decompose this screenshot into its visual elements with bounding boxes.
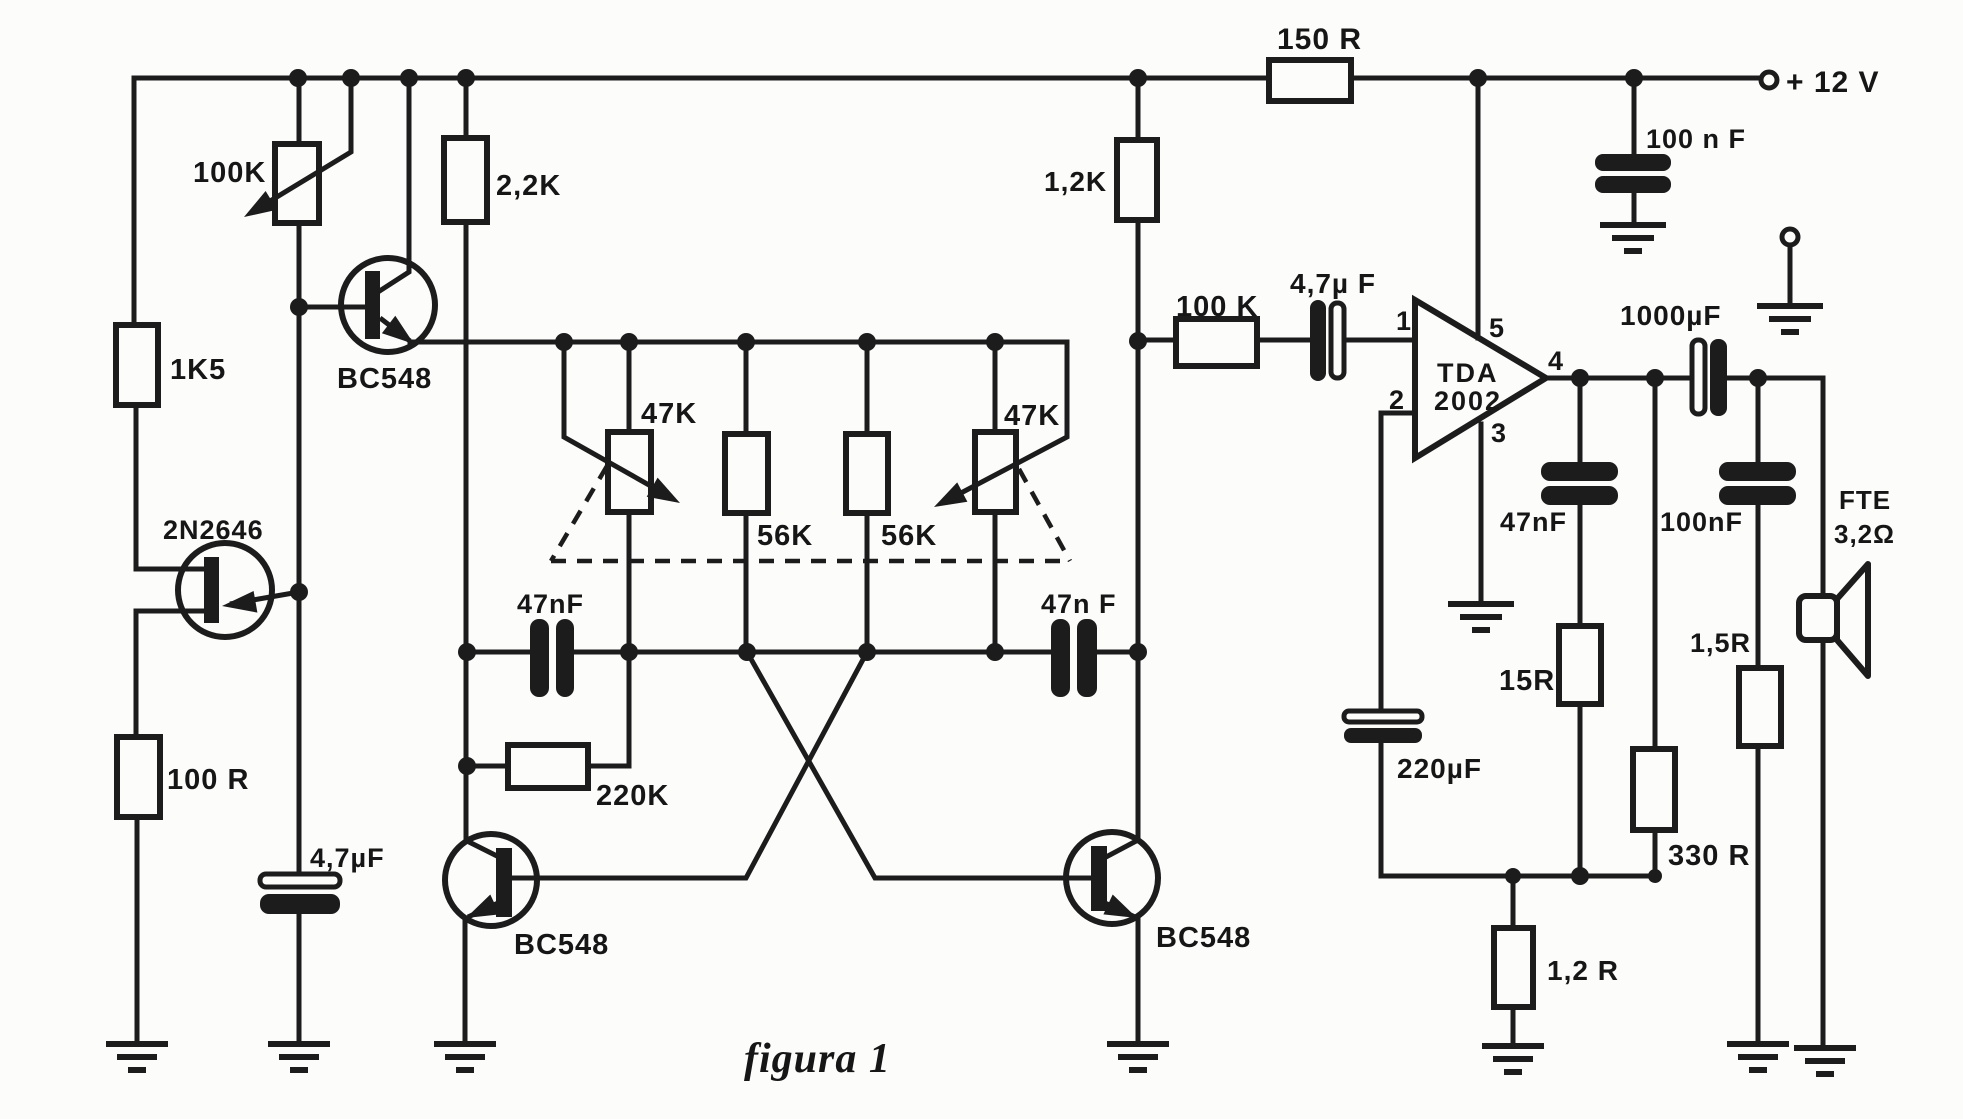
transistor Q4 2N2646 circle bbox=[178, 543, 272, 637]
wire 220K R7 left lead bbox=[467, 764, 508, 769]
terminal chassis ground bbox=[1782, 229, 1798, 245]
svg-text:2N2646: 2N2646 bbox=[163, 515, 264, 545]
svg-text:47K: 47K bbox=[1004, 400, 1060, 432]
wire 2.2K branch x=466 bbox=[464, 78, 469, 841]
transistor Q1 BC548 bar bbox=[365, 271, 380, 339]
wire 47K P2 top lead bbox=[627, 342, 632, 432]
transistor Q4 emitter wire bbox=[230, 592, 299, 604]
transistor Q1 BC548 circle bbox=[341, 258, 435, 352]
wire Q1 emitter bus y=342 bbox=[410, 340, 1067, 345]
potentiometer 47K P2 wiper arrowhead bbox=[647, 478, 680, 503]
junction dot UJT emitter node bbox=[290, 583, 308, 601]
resistor 100R bbox=[117, 737, 160, 817]
wire left rail 1K5 to UJT base B2 bbox=[136, 405, 204, 569]
capacitor 100nF C7 plate B bbox=[1595, 176, 1671, 193]
svg-text:1,5R: 1,5R bbox=[1690, 628, 1751, 658]
capacitor 4,7uF C1 solid plate bbox=[260, 894, 340, 914]
capacitor 100nF C7 plate A bbox=[1595, 154, 1671, 171]
transistor Q4 emitter arrowhead bbox=[222, 591, 257, 613]
wire Q3 collector diagonal bbox=[1106, 840, 1138, 857]
wire 56K R5 bottom lead bbox=[744, 513, 749, 652]
junction dot lower bus at 2,2K bbox=[458, 643, 476, 661]
wire pin 2 to 220uF bbox=[1381, 413, 1415, 711]
junction dot lower bus at R5 bbox=[738, 643, 756, 661]
svg-text:1000µF: 1000µF bbox=[1620, 300, 1722, 331]
transistor Q3 BC548 circle bbox=[1066, 832, 1158, 924]
svg-text:3: 3 bbox=[1491, 418, 1507, 448]
capacitor 4,7uF C1 hollow plate bbox=[260, 874, 340, 887]
wire 330R branch x=1655 bbox=[1653, 378, 1658, 876]
svg-text:100 n F: 100 n F bbox=[1646, 124, 1746, 154]
ganged linkage dashed right bbox=[1019, 469, 1070, 561]
wire +12V top rail left segment bbox=[134, 78, 1269, 325]
junction dot Q1 base node bbox=[290, 298, 308, 316]
wire node B 100K pot branch x=299 bbox=[297, 78, 302, 874]
ground Q2 emitter bbox=[434, 1044, 496, 1070]
potentiometer 100K body bbox=[275, 144, 319, 223]
svg-text:56K: 56K bbox=[757, 520, 813, 552]
junction dot lower bus at P3 bbox=[986, 643, 1004, 661]
transistor Q3 emitter arrowhead bbox=[1103, 895, 1137, 919]
resistor 56K R6 bbox=[846, 434, 888, 513]
capacitor 220uF hollow plate bbox=[1344, 711, 1422, 722]
wire 47K P3 bottom lead bbox=[993, 512, 998, 652]
svg-text:220µF: 220µF bbox=[1397, 753, 1482, 784]
capacitor 220uF solid plate bbox=[1344, 728, 1422, 743]
resistor 330R bbox=[1633, 749, 1675, 830]
resistor 100K input bbox=[1176, 319, 1257, 366]
junction dot rail at 100K bbox=[289, 69, 307, 87]
wire 100nF C7 to rail bbox=[1632, 78, 1637, 154]
wire node C lower bus left bbox=[467, 650, 530, 655]
svg-text:BC548: BC548 bbox=[337, 363, 432, 395]
junction dot feedback at 15R bbox=[1571, 867, 1589, 885]
ground chassis terminal bbox=[1757, 306, 1823, 332]
capacitor 47nF right plate A bbox=[1051, 619, 1070, 697]
svg-text:BC548: BC548 bbox=[1156, 922, 1251, 954]
transistor Q4 2N2646 bar bbox=[204, 557, 219, 623]
svg-text:47n F: 47n F bbox=[1041, 589, 1117, 619]
svg-text:15R: 15R bbox=[1499, 665, 1555, 697]
wire pin 5 to +12V bbox=[1476, 78, 1481, 338]
junction dot lower bus at Q3 collector bbox=[1129, 643, 1147, 661]
wire 15R 47nF branch lower bbox=[1578, 505, 1583, 876]
potentiometer 47K P2 body bbox=[608, 432, 651, 512]
junction dot bus at wiper P2 bbox=[555, 333, 573, 351]
wire 1000uF to speaker node bbox=[1726, 378, 1823, 1046]
resistor 2,2K bbox=[444, 138, 487, 222]
wire 220K R7 right lead bbox=[588, 652, 629, 766]
wire 56K R6 bottom lead bbox=[865, 513, 870, 652]
junction dot rail at pin5 bbox=[1469, 69, 1487, 87]
svg-text:47nF: 47nF bbox=[1500, 507, 1567, 537]
potentiometer 47K P3 body bbox=[975, 432, 1016, 512]
capacitor 47nF left plate A bbox=[530, 619, 549, 697]
wire zobel branch upper bbox=[1756, 378, 1761, 462]
wire 100nF C7 to ground bbox=[1632, 193, 1637, 222]
capacitor 47nF right plate B bbox=[1077, 619, 1097, 697]
wire 1.2R to feedback bus bbox=[1511, 876, 1516, 928]
wire zobel branch lower to ground bbox=[1756, 505, 1761, 1042]
transistor Q2 emitter arrowhead bbox=[466, 895, 500, 919]
junction dot rail at Q1 collector bbox=[400, 69, 418, 87]
junction dot lower bus at R6 bbox=[858, 643, 876, 661]
wire chassis terminal to ground bbox=[1788, 245, 1793, 303]
svg-text:100K: 100K bbox=[193, 157, 266, 189]
resistor 1,2K bbox=[1117, 140, 1157, 220]
resistor 15R bbox=[1559, 626, 1601, 704]
capacitor 100nF zobel plate B bbox=[1719, 486, 1796, 505]
wire 100R to ground bbox=[135, 817, 140, 1042]
junction dot lower bus at P2 bbox=[620, 643, 638, 661]
potentiometer 47K P2 wiper wire bbox=[564, 344, 672, 498]
svg-text:3,2Ω: 3,2Ω bbox=[1834, 519, 1895, 549]
resistor 1K5 bbox=[116, 325, 158, 405]
wire 4.7uF C1 to ground bbox=[297, 914, 302, 1042]
svg-text:FTE: FTE bbox=[1839, 485, 1891, 515]
wire 47K P2 bottom lead bbox=[627, 512, 632, 652]
wire Q2 collector diagonal bbox=[467, 841, 499, 857]
svg-text:BC548: BC548 bbox=[514, 929, 609, 961]
ground Q3 emitter bbox=[1107, 1044, 1169, 1070]
wire UJT base B1 to 100R bbox=[136, 611, 204, 737]
transistor Q1 emitter wire bbox=[380, 318, 410, 341]
svg-text:330 R: 330 R bbox=[1668, 840, 1750, 872]
junction dot feedback at 330R bbox=[1648, 869, 1662, 883]
speaker FTE bbox=[1799, 564, 1868, 676]
capacitor 1000uF solid plate bbox=[1710, 339, 1727, 416]
svg-text:4,7µF: 4,7µF bbox=[310, 843, 385, 873]
potentiometer 100K wiper arrowhead bbox=[244, 191, 277, 217]
wire Q3 emitter to ground bbox=[1136, 918, 1141, 1042]
transistor Q2 emitter wire bbox=[468, 903, 498, 917]
wire node C lower bus right bbox=[1097, 650, 1138, 655]
potentiometer 47K P3 wiper arrowhead bbox=[934, 482, 967, 507]
capacitor 47nF left plate B bbox=[556, 619, 574, 697]
wire 47K P3 top lead bbox=[993, 342, 998, 432]
wire pin 3 to ground bbox=[1479, 424, 1484, 601]
svg-text:100 R: 100 R bbox=[167, 764, 249, 796]
wire Q1 collector bbox=[378, 78, 409, 292]
junction dot bus at 56K R6 bbox=[858, 333, 876, 351]
potentiometer 47K P3 wiper wire bbox=[942, 344, 1067, 503]
svg-text:TDA: TDA bbox=[1437, 358, 1499, 388]
ground 4,7uF C1 bbox=[268, 1044, 330, 1070]
resistor 56K R5 bbox=[725, 434, 768, 513]
ganged linkage dashed bar bbox=[551, 559, 1070, 564]
wire Q2 emitter to ground bbox=[463, 918, 468, 1042]
svg-text:56K: 56K bbox=[881, 520, 937, 552]
wire +12V top rail right segment bbox=[1351, 76, 1761, 81]
wire 4.7uF C6 to pin 1 bbox=[1344, 338, 1415, 343]
wire node C lower bus middle bbox=[573, 650, 1051, 655]
junction dot rail at wiper bbox=[342, 69, 360, 87]
junction dot amp input node bbox=[1129, 332, 1147, 350]
ground 1,2R bbox=[1482, 1046, 1544, 1072]
wire output pin 4 to 1000uF bbox=[1546, 376, 1692, 381]
ground left rail bbox=[106, 1044, 168, 1070]
junction dot rail at 1,2K bbox=[1129, 69, 1147, 87]
junction dot speaker node bbox=[1749, 369, 1767, 387]
svg-text:220K: 220K bbox=[596, 780, 669, 812]
resistor 150R bbox=[1269, 60, 1351, 101]
svg-text:100 K: 100 K bbox=[1176, 291, 1258, 323]
wire 220uF to feedback bus bbox=[1381, 742, 1655, 876]
wire 1.2R to ground bbox=[1511, 1007, 1516, 1044]
wire Q3 base cross-coupling bbox=[747, 652, 1091, 878]
wire 56K R6 top lead bbox=[865, 342, 870, 434]
junction dot rail at 100nF bbox=[1625, 69, 1643, 87]
svg-text:figura 1: figura 1 bbox=[744, 1036, 891, 1082]
wire 15R 47nF branch upper bbox=[1578, 378, 1583, 462]
junction dot rail at 2,2K bbox=[457, 69, 475, 87]
svg-text:2002: 2002 bbox=[1434, 386, 1502, 416]
capacitor 4,7uF C6 solid plate bbox=[1310, 300, 1326, 381]
capacitor 4,7uF C6 hollow plate bbox=[1331, 303, 1344, 378]
terminal +12V bbox=[1761, 72, 1777, 88]
junction dot 220K node bbox=[458, 757, 476, 775]
svg-text:1: 1 bbox=[1396, 306, 1412, 336]
svg-text:47K: 47K bbox=[641, 398, 697, 430]
junction dot feedback at 1,2R bbox=[1505, 868, 1521, 884]
wire 56K R5 top lead bbox=[744, 342, 749, 434]
svg-text:4: 4 bbox=[1548, 346, 1564, 376]
junction dot bus at P2 top bbox=[620, 333, 638, 351]
junction dot output at 330R bbox=[1646, 369, 1664, 387]
ground 100nF C7 bbox=[1600, 225, 1666, 251]
op-amp U1 TDA2002 body bbox=[1415, 300, 1546, 458]
resistor 220K bbox=[508, 745, 588, 788]
ground zobel bbox=[1727, 1044, 1789, 1070]
transistor Q2 BC548 circle bbox=[445, 834, 537, 926]
svg-text:1,2K: 1,2K bbox=[1044, 166, 1107, 197]
svg-text:150 R: 150 R bbox=[1277, 23, 1362, 56]
svg-text:4,7µ F: 4,7µ F bbox=[1290, 268, 1376, 299]
transistor Q2 BC548 bar bbox=[496, 848, 512, 917]
transistor Q1 emitter arrowhead bbox=[382, 316, 414, 344]
ground speaker bbox=[1794, 1048, 1856, 1074]
ground pin 3 bbox=[1448, 604, 1514, 630]
resistor 1,5R bbox=[1739, 668, 1781, 746]
wire 1.2K branch x=1138 bbox=[1136, 78, 1141, 840]
ganged linkage dashed left bbox=[551, 466, 607, 561]
junction dot bus at 56K R5 bbox=[737, 333, 755, 351]
junction dot output at 47nF bbox=[1571, 369, 1589, 387]
svg-text:5: 5 bbox=[1489, 313, 1505, 343]
svg-text:2,2K: 2,2K bbox=[496, 170, 561, 202]
capacitor 47nF amp plate B bbox=[1541, 486, 1618, 505]
capacitor 1000uF hollow plate bbox=[1692, 340, 1705, 414]
svg-text:1K5: 1K5 bbox=[170, 354, 226, 386]
transistor Q3 emitter wire bbox=[1105, 903, 1135, 917]
junction dot bus at P3 top bbox=[986, 333, 1004, 351]
capacitor 47nF amp plate A bbox=[1541, 462, 1618, 481]
wire amp input node to 100K bbox=[1138, 338, 1311, 343]
svg-text:1,2 R: 1,2 R bbox=[1547, 955, 1619, 986]
svg-text:2: 2 bbox=[1389, 385, 1405, 415]
svg-text:47nF: 47nF bbox=[517, 589, 584, 619]
potentiometer 100K wiper wire bbox=[252, 80, 351, 212]
svg-text:+ 12 V: + 12 V bbox=[1786, 66, 1880, 99]
wire Q2 base cross-coupling bbox=[512, 652, 867, 878]
capacitor 100nF zobel plate A bbox=[1719, 462, 1796, 481]
svg-text:100nF: 100nF bbox=[1660, 507, 1743, 537]
transistor Q3 BC548 bar bbox=[1091, 846, 1107, 911]
resistor 1,2R bbox=[1494, 928, 1533, 1007]
wire Q1 base bbox=[299, 305, 365, 310]
